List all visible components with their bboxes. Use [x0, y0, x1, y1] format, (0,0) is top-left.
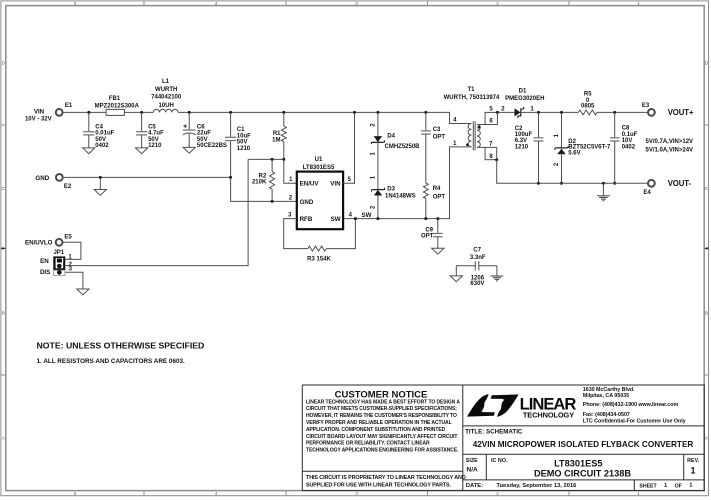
svg-text:0805: 0805	[581, 104, 595, 110]
svg-text:WURTH: WURTH	[155, 87, 177, 93]
earth ground	[597, 195, 610, 197]
diode D3	[374, 189, 382, 191]
svg-text:E4: E4	[643, 190, 651, 196]
svg-text:C2: C2	[515, 126, 523, 132]
svg-text:DATE:: DATE:	[466, 483, 483, 489]
wire R5 to E3	[597, 111, 648, 113]
svg-text:D1: D1	[519, 89, 527, 95]
svg-text:L1: L1	[162, 79, 170, 85]
wire E1 to FB1	[64, 111, 107, 113]
svg-text:Milpitas, CA 95035: Milpitas, CA 95035	[583, 393, 629, 399]
wire to R1	[283, 112, 285, 126]
junction VIN rail	[353, 111, 356, 114]
wire GND rail E2 to C1	[64, 176, 231, 178]
svg-text:0.1uF: 0.1uF	[622, 132, 638, 138]
junction R1/EN	[282, 158, 285, 161]
svg-text:IC NO.: IC NO.	[491, 458, 508, 464]
svg-text:744042100: 744042100	[151, 95, 182, 101]
wire to C9	[437, 219, 439, 234]
svg-text:22uF: 22uF	[197, 131, 211, 137]
wire to earth ground	[602, 183, 604, 195]
junction SW/R3	[354, 217, 357, 220]
svg-text:10V: 10V	[622, 138, 633, 144]
wire R4 to SW rail	[425, 199, 427, 219]
junction SW/D3	[376, 217, 379, 220]
wire D3 to SW rail	[377, 196, 379, 219]
title block	[302, 385, 704, 491]
wire C3 to R4	[425, 134, 427, 183]
svg-text:630V: 630V	[470, 281, 484, 287]
svg-text:VIN: VIN	[330, 181, 341, 188]
wire to ground	[455, 266, 457, 276]
svg-text:HOWEVER, IT REMAINS THE CUSTOM: HOWEVER, IT REMAINS THE CUSTOMER'S RESPO…	[306, 413, 457, 419]
resistor R2	[270, 172, 275, 190]
T1 primary polarity dot	[466, 143, 469, 146]
svg-text:5V/1.0A,VIN>24V: 5V/1.0A,VIN>24V	[646, 148, 694, 154]
wire to D4	[377, 112, 379, 136]
svg-text:210K: 210K	[252, 180, 267, 186]
wire to earth ground	[496, 266, 498, 276]
junction VOUT+/C8	[613, 111, 616, 114]
svg-text:50V: 50V	[197, 137, 208, 143]
junction EN/R2	[271, 158, 274, 161]
svg-text:5.6V: 5.6V	[568, 150, 580, 156]
junction VIN/C3	[424, 111, 427, 114]
svg-text:5: 5	[74, 1, 77, 6]
resistor R1	[281, 126, 286, 142]
T1 secondary winding	[477, 125, 480, 148]
svg-text:EN/UV: EN/UV	[300, 181, 320, 188]
svg-text:100uF: 100uF	[515, 132, 533, 138]
capacitor C1	[225, 136, 236, 138]
svg-text:2: 2	[496, 491, 499, 496]
svg-text:C3: C3	[433, 127, 441, 133]
svg-text:1: 1	[637, 1, 640, 6]
junction VIN/C1	[229, 111, 232, 114]
capacitor C5	[136, 131, 147, 133]
svg-text:D4: D4	[387, 133, 395, 139]
wire C7 right	[479, 265, 497, 267]
svg-text:D3: D3	[387, 187, 395, 193]
junction SW/R4	[424, 217, 427, 220]
svg-text:6.3V: 6.3V	[515, 138, 527, 144]
wire C8 to VOUT- rail	[614, 141, 616, 183]
wire T1 to D1	[497, 111, 514, 113]
svg-text:1210: 1210	[237, 146, 251, 152]
svg-text:PMEG3020EH: PMEG3020EH	[505, 96, 544, 102]
svg-text:10uF: 10uF	[237, 133, 251, 139]
svg-text:4.7uF: 4.7uF	[148, 131, 164, 137]
svg-text:TECHNOLOGY: TECHNOLOGY	[523, 411, 574, 420]
earth ground	[491, 275, 504, 277]
svg-text:Fax: (408)434-0507: Fax: (408)434-0507	[583, 412, 630, 418]
ferrite bead FB1	[106, 109, 124, 115]
ground	[432, 248, 444, 254]
svg-text:E2: E2	[64, 184, 72, 190]
capacitor C2	[534, 137, 544, 139]
svg-text:PERFORMANCE OR RELIABILITY. C: PERFORMANCE OR RELIABILITY. CONTACT LINE…	[306, 441, 430, 447]
wire to C6	[188, 112, 190, 130]
svg-text:3: 3	[355, 491, 358, 496]
svg-text:VIN: VIN	[34, 108, 45, 115]
svg-text:1: 1	[690, 466, 695, 476]
svg-text:+: +	[183, 124, 187, 131]
svg-text:B: B	[705, 311, 708, 316]
junction VIN/R1	[282, 111, 285, 114]
svg-text:GND: GND	[35, 175, 49, 182]
svg-text:Tuesday, September 13, 2016: Tuesday, September 13, 2016	[496, 483, 577, 489]
svg-text:R4: R4	[433, 186, 441, 192]
svg-text:SW: SW	[362, 212, 372, 219]
wire SW rail U1 SW pin to T1 pin 1	[343, 147, 471, 219]
svg-text:JP1: JP1	[53, 250, 64, 256]
T1 secondary polarity dot	[478, 126, 481, 129]
wire U1 VIN pin to rail	[343, 112, 354, 183]
ground	[136, 148, 148, 154]
svg-text:LT8301ES5: LT8301ES5	[554, 458, 602, 468]
wire U1 RFB to R3	[284, 219, 308, 249]
Linear Technology logo	[467, 394, 495, 416]
svg-text:1M: 1M	[272, 137, 280, 143]
junction VOUT+/D2	[560, 111, 563, 114]
svg-text:EN/UVLO: EN/UVLO	[25, 240, 53, 247]
svg-text:0402: 0402	[622, 145, 636, 151]
svg-text:0.01uF: 0.01uF	[95, 131, 114, 137]
zener diode D2	[557, 147, 565, 149]
wire C2 to VOUT- rail	[538, 141, 540, 183]
svg-text:C6: C6	[197, 124, 205, 130]
svg-text:GND: GND	[300, 199, 314, 206]
svg-text:Phone: (408)432-1900 www.line: Phone: (408)432-1900 www.linear.com	[583, 402, 679, 408]
terminal E2	[56, 174, 63, 181]
svg-text:T1: T1	[467, 87, 475, 93]
capacitor C8	[610, 137, 620, 139]
svg-text:C4: C4	[95, 124, 103, 130]
svg-text:LT8301ES5: LT8301ES5	[303, 165, 335, 171]
svg-text:SHEET: SHEET	[639, 484, 657, 490]
svg-text:1210: 1210	[148, 143, 162, 149]
ground	[83, 148, 95, 154]
svg-text:R1: R1	[273, 131, 281, 137]
svg-text:E1: E1	[65, 103, 73, 109]
junction GND rail	[99, 176, 102, 179]
junction VOUT-/C2	[537, 182, 540, 185]
svg-text:NOTE: UNLESS OTHERWISE SPECIFI: NOTE: UNLESS OTHERWISE SPECIFIED	[37, 340, 205, 350]
svg-text:50V: 50V	[148, 137, 159, 143]
svg-text:CMHZ5250B: CMHZ5250B	[385, 144, 421, 150]
svg-text:SIZE: SIZE	[466, 458, 478, 464]
terminal E4	[648, 180, 655, 187]
svg-text:OPT: OPT	[421, 234, 434, 240]
inductor L1	[153, 109, 178, 112]
svg-text:VOUT+: VOUT+	[668, 108, 694, 117]
wire to C4	[88, 112, 90, 131]
svg-text:R3 154K: R3 154K	[307, 256, 331, 262]
terminal E5	[56, 239, 63, 246]
wire to C3	[425, 112, 427, 130]
svg-text:50CE22BS: 50CE22BS	[197, 143, 227, 149]
svg-text:C7: C7	[473, 248, 481, 254]
capacitor C4	[83, 131, 94, 133]
svg-text:SUPPLIED FOR USE WITH LINEAR T: SUPPLIED FOR USE WITH LINEAR TECHNOLOGY …	[306, 483, 452, 489]
svg-text:R5: R5	[584, 92, 592, 98]
wire D1 to R5	[521, 111, 579, 113]
wire C9 to ground	[437, 237, 439, 249]
svg-text:3.3nF: 3.3nF	[470, 255, 486, 261]
wire C5 to ground	[141, 135, 143, 148]
svg-text:50V: 50V	[95, 137, 106, 143]
resistor R5	[578, 110, 597, 115]
svg-text:SW: SW	[331, 216, 341, 223]
wire node EN horizontal	[248, 158, 284, 160]
wire T1 pin 8 to VOUT- rail	[497, 160, 539, 184]
wire D4 to D3	[377, 143, 379, 190]
resistor R3	[308, 246, 326, 251]
T1 secondary pins 5/6 loop	[477, 124, 485, 126]
svg-text:CIRCUIT BOARD LAYOUT MAY SIGNI: CIRCUIT BOARD LAYOUT MAY SIGNIFICANTLY A…	[306, 434, 458, 440]
svg-text:C1: C1	[237, 127, 245, 133]
wire VIN rail L1 to T1 pin 4	[178, 112, 471, 123]
svg-text:WURTH, 750313974: WURTH, 750313974	[444, 95, 500, 101]
svg-text:E3: E3	[642, 103, 650, 109]
wire JP1 pin 2 to EN node	[65, 159, 248, 265]
terminal E3	[648, 109, 655, 116]
wire E5 to JP1 pin 1	[62, 242, 81, 259]
svg-text:50V: 50V	[237, 140, 248, 146]
svg-text:1210: 1210	[515, 144, 529, 150]
T1 primary winding	[468, 124, 471, 147]
T1 secondary pins 7/8 loop	[477, 146, 485, 148]
junction T1 pin 5	[496, 111, 499, 114]
svg-text:42VIN MICROPOWER ISOLATED FLYB: 42VIN MICROPOWER ISOLATED FLYBACK CONVER…	[473, 440, 694, 449]
wire GND to U1 GND pin	[231, 177, 297, 201]
svg-text:4: 4	[215, 1, 218, 6]
capacitor C9	[433, 233, 443, 235]
wire to C5	[141, 112, 143, 131]
junction VOUT-/D2	[560, 182, 563, 185]
svg-text:VOUT-: VOUT-	[668, 179, 692, 188]
svg-text:1N4148WS: 1N4148WS	[385, 193, 416, 199]
svg-text:MPZ2012S300A: MPZ2012S300A	[95, 103, 140, 109]
junction VIN/C5	[140, 111, 143, 114]
svg-text:5V/0.7A,VIN>12V: 5V/0.7A,VIN>12V	[646, 139, 694, 145]
wire FB1 to L1	[124, 111, 153, 113]
svg-text:CIRCUIT THAT MEETS CUSTOMER-SU: CIRCUIT THAT MEETS CUSTOMER-SUPPLIED SPE…	[306, 406, 457, 412]
svg-text:N/A: N/A	[467, 467, 479, 474]
ground	[94, 190, 106, 196]
wire C6 to ground	[188, 134, 190, 148]
svg-text:DEMO CIRCUIT 2138B: DEMO CIRCUIT 2138B	[534, 469, 631, 479]
svg-text:10V - 32V: 10V - 32V	[25, 116, 52, 122]
schottky diode D1	[515, 108, 521, 116]
svg-text:APPLICATION. COMPONENT SUBSTI: APPLICATION. COMPONENT SUBSTITUTION AND …	[306, 427, 446, 433]
wire to C8	[614, 112, 616, 137]
svg-text:EN: EN	[40, 258, 49, 265]
wire C7 left	[456, 265, 475, 267]
resistor R4	[423, 183, 428, 199]
junction T1 pin 8	[495, 158, 498, 161]
svg-text:0402: 0402	[95, 143, 109, 149]
ground	[450, 276, 462, 282]
junction VOUT+/C2	[537, 111, 540, 114]
svg-text:VERIFY PROPER AND RELIABLE OPE: VERIFY PROPER AND RELIABLE OPERATION IN …	[306, 420, 452, 426]
ground	[183, 147, 195, 153]
wire JP1 pin 3 to ground	[65, 272, 83, 289]
svg-text:OPT: OPT	[433, 194, 446, 200]
T1 core	[472, 121, 474, 150]
svg-text:1630 McCarthy Blvd.: 1630 McCarthy Blvd.	[583, 387, 635, 393]
junction VIN/D4	[376, 111, 379, 114]
junction VIN/C4	[87, 111, 90, 114]
svg-text:TITLE: SCHEMATIC: TITLE: SCHEMATIC	[465, 428, 523, 435]
svg-text:LTC Confidential-For Customer: LTC Confidential-For Customer Use Only	[583, 419, 686, 425]
svg-text:B: B	[2, 311, 5, 316]
junction VOUT-/C8	[613, 182, 616, 185]
wire C4 to ground	[88, 135, 90, 148]
wire to C2	[538, 112, 540, 137]
svg-text:C8: C8	[622, 126, 630, 132]
junction R2/GND	[271, 200, 274, 203]
svg-text:3: 3	[355, 1, 358, 6]
terminal E1	[56, 109, 63, 116]
zener diode D4	[374, 136, 382, 142]
junction GND rail/C1	[229, 176, 232, 179]
junction VOUT-/earth	[602, 182, 605, 185]
svg-text:THIS CIRCUIT IS PROPRIETARY TO: THIS CIRCUIT IS PROPRIETARY TO LINEAR TE…	[306, 475, 466, 481]
svg-text:4: 4	[215, 491, 218, 496]
wire D2 to VOUT- rail	[561, 154, 563, 183]
svg-text:FB1: FB1	[109, 96, 121, 102]
wire to C1	[230, 112, 232, 137]
svg-text:U1: U1	[315, 157, 323, 163]
capacitor C6	[183, 129, 196, 131]
svg-text:5: 5	[74, 491, 77, 496]
svg-text:10UH: 10UH	[159, 103, 174, 109]
svg-text:LINEAR TECHNOLOGY HAS MADE A B: LINEAR TECHNOLOGY HAS MADE A BEST EFFORT…	[306, 399, 460, 405]
wire R3 to SW node	[326, 219, 355, 249]
wire to R2	[271, 159, 273, 171]
wire to D2	[561, 112, 563, 147]
wire VOUT- rail	[539, 182, 649, 184]
wire to ground	[99, 177, 101, 189]
svg-text:TECHNOLOGY APPLICATIONS ENGINE: TECHNOLOGY APPLICATIONS ENGINEERING FOR …	[306, 448, 459, 454]
ground	[77, 289, 89, 295]
capacitor C7	[474, 261, 476, 270]
svg-text:OPT: OPT	[433, 134, 446, 140]
IC U1 LT8301ES5	[297, 172, 343, 230]
junction SW/C9	[436, 217, 439, 220]
svg-text:C5: C5	[148, 124, 156, 130]
svg-text:DIS: DIS	[40, 269, 50, 276]
svg-text:E5: E5	[64, 235, 72, 241]
wire EN to U1 pin 1	[284, 159, 297, 183]
svg-text:R2: R2	[259, 173, 267, 179]
svg-text:RFB: RFB	[300, 216, 313, 223]
junction VIN/C6	[188, 111, 191, 114]
svg-text:OF: OF	[675, 484, 682, 490]
svg-text:2: 2	[496, 1, 499, 6]
wire C1 to GND rail	[230, 141, 232, 178]
wire R1 to EN node	[283, 142, 285, 160]
svg-text:REV.: REV.	[687, 458, 700, 464]
wire R2 to GND pin line	[271, 189, 273, 201]
svg-text:1. ALL RESISTORS AND CAPACITO: 1. ALL RESISTORS AND CAPACITORS ARE 0603…	[37, 358, 186, 365]
capacitor C3	[421, 130, 431, 132]
svg-text:1: 1	[637, 491, 640, 496]
